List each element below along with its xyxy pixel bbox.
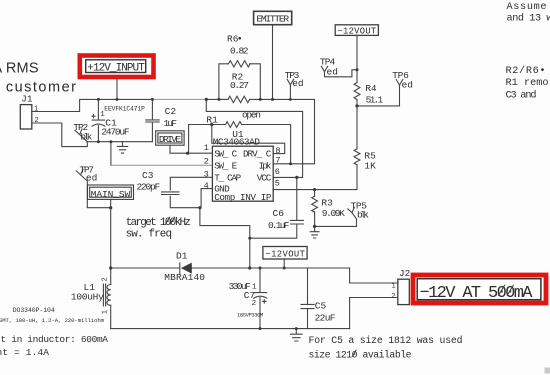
capacitor C5 plates [301, 304, 314, 308]
net label box -12VOUT top [335, 25, 378, 36]
ground symbol below R3 [310, 226, 319, 238]
resistor R5 body [354, 149, 360, 165]
svg-text:2: 2 [391, 293, 395, 301]
resistor R2 body [228, 96, 250, 102]
svg-text:C3 and: C3 and [506, 90, 537, 102]
inductor L1 coil [107, 285, 111, 306]
capacitor C3 plates [162, 192, 180, 195]
inductor L1 core bars [103, 284, 105, 306]
svg-text:51.1: 51.1 [366, 94, 384, 105]
stray gray mark bottom right corner [545, 368, 550, 374]
svg-text:1K: 1K [364, 161, 376, 172]
svg-text:0.1uF: 0.1uF [268, 220, 290, 231]
wire ground rail [87, 141, 152, 143]
svg-text:MBRA140: MBRA140 [164, 272, 205, 283]
svg-text:ed: ed [402, 80, 413, 91]
svg-text:J1: J1 [21, 94, 33, 105]
svg-text:A RMS: A RMS [0, 61, 39, 77]
net label box MAIN_SW inner [90, 187, 132, 197]
wire R5 to pin5 [273, 165, 357, 190]
inductor L1 leads [110, 268, 112, 329]
svg-text:4: 4 [204, 181, 209, 191]
net label box -12V AT 500mA [417, 279, 541, 300]
svg-text:C5: C5 [315, 301, 327, 312]
svg-text:r customer: r customer [0, 80, 76, 96]
svg-text:1: 1 [34, 106, 38, 114]
svg-text:C2: C2 [165, 106, 177, 117]
svg-text:VCC: VCC [257, 173, 272, 184]
wire +12V_INPUT stub [116, 79, 118, 99]
svg-text:100uHy: 100uHy [71, 292, 104, 303]
wire VCC dogleg to pin6 [206, 99, 302, 177]
svg-text:R6: R6 [227, 33, 239, 44]
svg-text:18SVP330M: 18SVP330M [237, 313, 263, 319]
svg-text:2: 2 [252, 300, 257, 308]
capacitor C5 leads [307, 268, 309, 329]
capacitor C2 plates [146, 120, 159, 122]
wire J1 pin1 to +12V rail [32, 99, 153, 111]
svg-text:22uF: 22uF [315, 312, 336, 323]
svg-text:R5: R5 [364, 150, 376, 161]
wire R4 R5 link [356, 106, 358, 149]
wire pin4 drop [201, 189, 212, 208]
svg-text:2: 2 [35, 117, 39, 125]
capacitor C7 plates [254, 293, 267, 299]
svg-text:Comp INV IP: Comp INV IP [214, 192, 272, 203]
svg-text:ed: ed [292, 78, 303, 89]
svg-text:1: 1 [102, 310, 110, 314]
svg-text:ed: ed [86, 173, 97, 184]
test point TP6 probe and wire [357, 80, 403, 106]
svg-text:1: 1 [204, 143, 209, 153]
svg-text:MC34063AD: MC34063AD [213, 136, 261, 147]
svg-text:DRV_ C: DRV_ C [243, 148, 272, 159]
svg-text:+12V_INPUT: +12V_INPUT [87, 62, 145, 74]
svg-text:D1: D1 [176, 251, 188, 262]
svg-text:5: 5 [275, 179, 280, 189]
test point TP2 probe [75, 129, 87, 142]
svg-text:SMT, 100-uH, 1.2-A, 220-millio: SMT, 100-uH, 1.2-A, 220-milliohm [0, 317, 105, 324]
net label box DRIVE outer [156, 131, 184, 145]
resistor R1 body [226, 122, 242, 128]
svg-text:0.27: 0.27 [230, 80, 249, 91]
svg-text:t in inductor: 600mA: t in inductor: 600mA [1, 334, 109, 345]
net label box +12V_INPUT [86, 60, 146, 73]
svg-text:R2/R6•: R2/R6• [506, 65, 546, 77]
svg-text:220pF: 220pF [137, 181, 161, 192]
ground symbol near C1 [117, 142, 127, 153]
slashed zeros in 100kHz [166, 217, 175, 224]
svg-text:8: 8 [275, 146, 280, 156]
test point TP4 probe and dogleg [321, 66, 357, 77]
svg-text:−12V AT 500mA: −12V AT 500mA [420, 284, 534, 303]
svg-text:EMITTER: EMITTER [256, 14, 289, 25]
svg-text:Ipk: Ipk [259, 160, 272, 171]
ground symbol below C5 rail [291, 329, 303, 341]
wire pin3 to C3 [170, 177, 211, 207]
svg-text:R4: R4 [365, 83, 377, 94]
svg-text:J2: J2 [399, 268, 410, 279]
svg-text:SW_ C: SW_ C [214, 148, 237, 159]
wire -12VOUT lower stub [283, 259, 285, 268]
svg-text:and 13 w: and 13 w [507, 13, 550, 25]
highlight red box +12V_INPUT [80, 56, 154, 78]
capacitor C1 plates [92, 120, 105, 126]
svg-text:2470uF: 2470uF [101, 126, 129, 137]
net label box -12VOUT lower [263, 247, 307, 260]
wire D1 rail [111, 267, 350, 269]
wire +12V rail light segment [152, 98, 206, 100]
svg-text:MAIN_SW: MAIN_SW [91, 189, 131, 200]
net label box MAIN_SW outer [88, 185, 134, 199]
wire switch node down to L1 [110, 208, 112, 268]
capacitor C7 leads [259, 268, 261, 329]
wire SW_E line [110, 142, 112, 166]
wire R1 net [189, 125, 291, 164]
slashed zero in 1210 [353, 350, 357, 356]
svg-text:C6: C6 [273, 208, 285, 219]
svg-text:target 100kHz: target 100kHz [126, 217, 191, 229]
svg-text:SW_ E: SW_ E [214, 160, 237, 171]
resistor R3 body [312, 196, 318, 212]
test point TP7 probe and wire [76, 169, 111, 207]
svg-text:6: 6 [275, 167, 280, 177]
svg-text:R1: R1 [206, 114, 218, 125]
svg-text:open: open [242, 110, 261, 121]
svg-text:0.82: 0.82 [230, 46, 249, 57]
wire bottom rail [111, 328, 350, 330]
svg-text:DO3340P-104: DO3340P-104 [13, 307, 55, 314]
svg-text:−12VOUT: −12VOUT [337, 26, 376, 36]
net label box DRIVE inner [158, 133, 182, 143]
svg-text:nt = 1.4A: nt = 1.4A [0, 347, 49, 358]
wire J2 pin1 feed [350, 268, 398, 283]
connector J2 body [398, 279, 410, 304]
capacitor C1 plus sign [92, 115, 95, 118]
wire DRIVE to pin1 [170, 145, 212, 153]
test point TP3 probe [287, 79, 293, 99]
svg-text:C3: C3 [142, 170, 154, 181]
svg-text:2: 2 [102, 277, 110, 281]
resistor R6 body [229, 61, 251, 67]
svg-text:1: 1 [392, 282, 396, 290]
wire pin8 loop over IC [212, 125, 285, 154]
test point TP5 probe and wire [315, 207, 357, 226]
svg-text:size 1210 available: size 1210 available [309, 350, 412, 361]
net label box EMITTER [254, 11, 292, 24]
svg-text:3: 3 [204, 170, 209, 180]
capacitor C7 plus sign [263, 300, 266, 303]
svg-text:blk: blk [357, 210, 369, 221]
diode D1 triangle [181, 263, 192, 274]
svg-text:T_ CAP: T_ CAP [214, 173, 241, 184]
svg-text:Assume: Assume [507, 2, 547, 13]
capacitor C1 leads [97, 99, 99, 141]
wire MAIN_SW stub [110, 199, 112, 207]
wire rail to pin7 corner [250, 99, 315, 163]
wire -12VOUT upper stub [356, 35, 358, 82]
wire J1 pin2 jog [32, 123, 88, 147]
svg-text:9.09K: 9.09K [322, 208, 345, 219]
svg-text:1uF: 1uF [164, 118, 178, 129]
resistor R4 body [354, 83, 360, 100]
wire EMITTER stub [272, 25, 274, 100]
connector J1 body [20, 105, 32, 129]
slashed zeros in 500mA [499, 285, 514, 295]
diode D1 cathode bar [179, 263, 181, 273]
svg-text:DRIVE: DRIVE [159, 134, 181, 145]
capacitor C2 leads [151, 99, 153, 141]
svg-text:R1 remo: R1 remo [506, 78, 549, 89]
resistor R6 loop wires [219, 64, 260, 100]
resistor R3 leads [314, 190, 316, 227]
svg-text:ed: ed [327, 67, 338, 78]
capacitor C6 leads [250, 177, 297, 238]
svg-text:EEVFK1C471P: EEVFK1C471P [104, 105, 145, 112]
svg-text:2: 2 [204, 156, 209, 166]
wire +12V rail right with R2 [206, 98, 228, 100]
svg-text:7: 7 [275, 155, 280, 165]
highlight red box -12V AT 500mA [413, 275, 546, 303]
svg-text:−12VOUT: −12VOUT [265, 250, 305, 260]
svg-text:For C5 a size 1812 was used: For C5 a size 1812 was used [309, 335, 463, 346]
svg-text:R3: R3 [321, 197, 333, 208]
svg-text:blk: blk [80, 131, 92, 142]
op-amp U1 MC34063AD body [212, 146, 273, 201]
wire gnd net jog to D1 rail [200, 208, 250, 268]
svg-text:sw. freq: sw. freq [126, 229, 173, 241]
wire R4 to junction [356, 100, 358, 106]
capacitor C6 plates [290, 220, 303, 224]
wire J2 pin2 feed [350, 298, 398, 329]
